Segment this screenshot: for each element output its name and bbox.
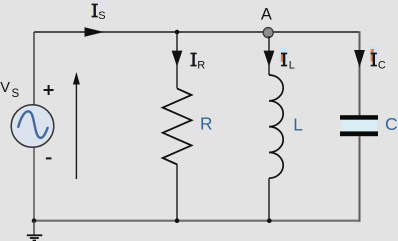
arrow Is on top wire [85, 27, 105, 37]
node A dot [263, 28, 273, 38]
minus sign [46, 157, 52, 159]
svg-text:R: R [197, 59, 205, 71]
wire right vertical lower (capacitor to bottom bus) [359, 136, 361, 222]
label Is highlight smudges [89, 4, 92, 18]
highlight band behind Ic label [370, 47, 377, 61]
voltage direction arrow (up) [75, 84, 77, 179]
wire bottom bus [34, 220, 360, 222]
wire left vertical upper (source top to bus) [33, 32, 35, 105]
label Is [92, 4, 98, 18]
svg-text:S: S [98, 10, 105, 22]
svg-text:A: A [261, 6, 272, 24]
capacitor C top plate [340, 115, 378, 120]
svg-text:C: C [385, 114, 398, 134]
label Ir [191, 53, 197, 67]
inductor branch bottom wire [268, 178, 270, 221]
resistor R zigzag [163, 88, 192, 164]
voltage source Vs circle [11, 105, 54, 148]
label Il (orange stripe artifact + black I) [281, 53, 284, 62]
plus sign [44, 89, 54, 91]
svg-text:R: R [200, 114, 212, 134]
capacitor C bottom plate [340, 131, 378, 136]
highlight band behind Il label [280, 48, 287, 62]
ground symbol [33, 221, 35, 235]
label Ic (orange stripe artifact + black I) [371, 49, 374, 62]
svg-text:V: V [0, 80, 10, 96]
inductor L coil [269, 75, 283, 178]
arrow Ic [354, 50, 365, 68]
sine wave inside source [18, 111, 47, 138]
junction dot inductor bottom [267, 218, 272, 223]
wire right vertical upper (bus to capacitor) [359, 31, 361, 115]
capacitor C dielectric fill [341, 120, 377, 132]
resistor branch top wire [176, 32, 178, 88]
svg-text:S: S [12, 88, 20, 100]
wire left vertical lower (source bottom to ground bus) [33, 148, 35, 221]
junction dot resistor bottom [175, 218, 180, 223]
arrow Il [264, 51, 275, 67]
svg-text:L: L [293, 114, 303, 134]
junction dot ground node [32, 218, 37, 223]
junction dot at resistor top [175, 30, 180, 35]
resistor branch bottom wire [176, 165, 178, 221]
wire top bus from source to right branch [34, 31, 360, 33]
svg-text:C: C [378, 60, 386, 72]
svg-text:L: L [289, 59, 295, 71]
inductor branch top wire [268, 36, 270, 75]
arrow Ir [172, 51, 183, 67]
